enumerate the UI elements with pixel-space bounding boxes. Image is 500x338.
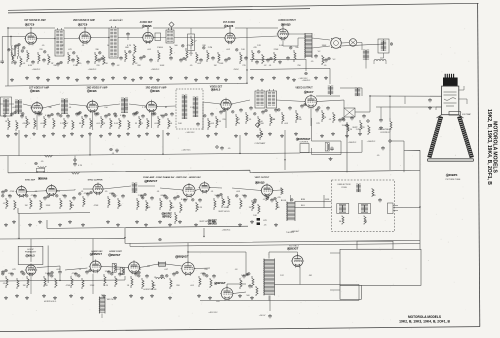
resistor R313 <box>180 202 182 213</box>
ground band A g28 <box>315 76 317 78</box>
tube V18 label <box>214 282 217 285</box>
svg-text:1K: 1K <box>103 123 106 125</box>
svg-text:MOTOROLA MODELS: MOTOROLA MODELS <box>408 315 441 319</box>
resistor R307 <box>108 196 110 208</box>
ground band D g11 <box>151 294 153 296</box>
ground band D g10 <box>141 296 143 298</box>
ground band B g16 <box>157 134 159 136</box>
capacitor C253 <box>331 147 333 149</box>
resistor R109 <box>125 50 127 62</box>
svg-text:82: 82 <box>165 107 168 109</box>
resistor R308 <box>118 198 120 209</box>
svg-text:VIDEO OUTPUT: VIDEO OUTPUT <box>295 88 313 90</box>
node A2 <box>147 27 148 28</box>
wire band B drop x285 <box>284 130 286 170</box>
svg-text:150K: 150K <box>342 125 347 127</box>
ground band A g24 <box>261 78 263 80</box>
transformer L1 input coil <box>11 46 12 57</box>
capacitor C413 <box>203 272 205 274</box>
yoke coil L16 <box>359 204 371 214</box>
wire band C second bus <box>130 243 420 246</box>
ground band B g22 <box>257 134 259 136</box>
svg-text:150: 150 <box>104 107 108 109</box>
ground band B g8 <box>81 134 83 136</box>
resistor R216 <box>158 116 160 128</box>
svg-text:.001: .001 <box>96 123 101 125</box>
junction dots extra <box>7 27 8 28</box>
resistor R409 <box>131 276 133 288</box>
capacitor C211 <box>123 114 125 116</box>
wire flyback bottom <box>268 296 270 301</box>
svg-text:470: 470 <box>277 197 281 199</box>
resistor R118 <box>262 54 264 64</box>
resistor R321 extra <box>228 196 230 208</box>
ground band B g20 <box>235 134 237 136</box>
capacitor C119 <box>287 56 289 58</box>
ground band C g13 <box>179 220 181 222</box>
svg-text:+140VDC: +140VDC <box>302 80 311 82</box>
svg-text:100K: 100K <box>160 65 165 67</box>
svg-text:4.7K: 4.7K <box>78 165 83 167</box>
svg-text:.005: .005 <box>124 107 129 109</box>
ground band D g2 <box>26 296 28 298</box>
capacitor C310 <box>151 196 153 198</box>
svg-text:1.5K: 1.5K <box>73 65 78 67</box>
svg-text:220: 220 <box>96 65 100 67</box>
wire long bus y170 <box>8 150 420 249</box>
resistor R219 <box>216 116 218 128</box>
resistor R101 <box>20 56 22 67</box>
transformer T10 vert output <box>286 202 288 222</box>
label contrast control black <box>296 138 299 141</box>
label hv rect <box>287 247 290 250</box>
svg-text:CONTRAST: CONTRAST <box>255 142 267 145</box>
svg-text:.005: .005 <box>210 123 215 125</box>
capacitor C106 <box>98 58 100 60</box>
resistor R207 <box>72 120 74 130</box>
potentiometer R-contrast <box>260 128 262 140</box>
ground band C g3 <box>39 220 41 222</box>
resistor R412 <box>170 278 172 289</box>
capacitor C417 <box>269 314 271 316</box>
ground band B g2 <box>25 134 27 136</box>
node A1 <box>84 27 85 28</box>
tube V13 label <box>255 181 258 184</box>
border top line inner <box>8 9 310 13</box>
svg-text:1K: 1K <box>273 119 276 121</box>
ground band B g11 <box>109 132 111 134</box>
resistor R301 <box>14 200 16 210</box>
svg-text:FREQ: FREQ <box>165 215 172 218</box>
svg-text:500K: 500K <box>224 207 229 209</box>
svg-text:.002: .002 <box>226 49 231 51</box>
resistor R120 <box>294 50 296 62</box>
ground band D g7 <box>103 294 105 296</box>
tube V1 1st sound IF <box>25 33 36 44</box>
capacitor C108 <box>120 56 122 58</box>
resistor R200 <box>8 118 10 130</box>
resistor R115 <box>218 52 220 63</box>
tube V14 label <box>26 255 29 258</box>
tube V10 label <box>304 91 307 94</box>
resistor R314 <box>196 202 198 212</box>
box contrast <box>300 144 309 153</box>
svg-text:120K: 120K <box>90 285 95 287</box>
capacitor C410 <box>146 274 148 276</box>
wire vol drop <box>190 28 192 56</box>
svg-text:.005: .005 <box>139 123 144 125</box>
svg-text:1X2: 1X2 <box>280 275 284 277</box>
resistor R251 inline <box>71 172 80 174</box>
tube V1 label <box>25 23 28 26</box>
svg-text:.5M: .5M <box>308 275 312 277</box>
resistor R204 <box>44 116 46 128</box>
border bottom line <box>0 327 480 332</box>
transformer T7 2nd IF <box>61 98 64 100</box>
capacitor C318 <box>271 198 273 200</box>
ground band A g16 <box>170 76 172 78</box>
resistor R403 <box>44 276 46 287</box>
wire band D couplings <box>37 264 359 311</box>
resistor R211 <box>110 118 112 129</box>
ground band A g15 <box>157 78 159 80</box>
ground band B g19 <box>215 132 217 134</box>
cluster AGC filter <box>35 162 38 165</box>
svg-text:.05: .05 <box>264 225 268 227</box>
resistor R225 <box>296 110 298 123</box>
resistor R405 <box>71 276 73 288</box>
svg-text:.01: .01 <box>211 191 215 193</box>
capacitor C117 <box>256 60 258 62</box>
wire band B video out to CRT <box>316 88 441 112</box>
capacitor C405 <box>75 272 77 274</box>
capacitor C222 <box>275 108 277 110</box>
cluster right agc <box>110 148 113 151</box>
capacitor C401 <box>11 272 13 274</box>
svg-text:BRN: BRN <box>301 199 306 201</box>
ground band B g4 <box>43 134 45 136</box>
capacitor C409 <box>135 272 137 274</box>
svg-text:6W4GT: 6W4GT <box>216 281 226 285</box>
wire band C couplings <box>27 186 291 202</box>
svg-text:.047: .047 <box>164 269 169 271</box>
svg-text:AUDIO DET: AUDIO DET <box>140 21 153 24</box>
resistor R203 <box>34 118 36 129</box>
svg-text:5.6K: 5.6K <box>114 123 119 125</box>
wire loop rect C <box>340 285 361 299</box>
resistor R227 <box>333 112 335 123</box>
svg-text:.01: .01 <box>82 45 86 47</box>
capacitor C100 <box>15 44 17 46</box>
svg-text:6CB6: 6CB6 <box>153 89 160 93</box>
resistor R116 <box>240 52 242 64</box>
resistor R413 <box>199 276 201 287</box>
svg-text:.02: .02 <box>264 65 268 67</box>
svg-text:10K: 10K <box>253 215 257 217</box>
svg-text:470K: 470K <box>94 205 99 207</box>
capacitor C201 <box>21 114 23 116</box>
capacitor C202 <box>38 112 40 114</box>
resistor R224 <box>282 112 284 124</box>
svg-text:470: 470 <box>253 47 257 49</box>
node A6 <box>246 69 247 70</box>
capacitor C304 <box>64 194 66 196</box>
yoke coil L17 <box>356 183 358 185</box>
svg-text:2.2M: 2.2M <box>208 47 213 49</box>
ground band C g15 <box>213 220 215 222</box>
svg-text:6AL5: 6AL5 <box>28 254 35 258</box>
resistor R206 <box>64 118 66 129</box>
wire x306 drop <box>250 59 306 71</box>
tube V14 horiz phase det <box>26 265 36 275</box>
resistor R315 <box>214 198 216 210</box>
ground band A g17 <box>185 76 187 78</box>
resistor R222 <box>258 116 260 128</box>
ground band B g6 <box>63 134 65 136</box>
svg-text:VC: VC <box>333 59 336 61</box>
capacitor C105 <box>87 60 89 62</box>
ground band A g12 <box>132 78 134 80</box>
capacitor C412 <box>173 272 175 274</box>
svg-text:CONTROL: CONTROL <box>380 132 391 134</box>
transformer T4 audio output <box>304 33 306 58</box>
capacitor C120 <box>315 54 317 56</box>
svg-text:1M: 1M <box>62 195 65 197</box>
svg-text:.05: .05 <box>41 161 45 163</box>
ground band A g2 <box>37 76 39 78</box>
resistor R112 <box>186 48 188 61</box>
coil L5 filter choke <box>363 49 366 51</box>
svg-text:HORIZ HOLD: HORIZ HOLD <box>44 301 57 303</box>
svg-text:56: 56 <box>339 221 342 223</box>
coil L10 peaking <box>255 91 265 108</box>
svg-text:330: 330 <box>298 119 302 121</box>
resistor R111 <box>158 50 160 62</box>
coil L12 sound takeoff <box>328 85 330 87</box>
capacitor C226 <box>327 106 329 108</box>
capacitor C312 <box>174 196 176 198</box>
svg-text:.01: .01 <box>157 191 161 193</box>
svg-text:ION TRAP: ION TRAP <box>462 113 472 116</box>
ground band C g1 <box>13 220 15 222</box>
svg-text:SYNC AMP - SYNC PHASE INV - VE: SYNC AMP - SYNC PHASE INV - VERT OSC - H… <box>143 176 201 179</box>
test point TP2 diamond <box>169 22 174 27</box>
tube V2 2nd sound IF <box>79 32 90 43</box>
wire band D left col <box>31 273 102 318</box>
svg-text:560: 560 <box>174 45 178 47</box>
svg-text:470: 470 <box>276 207 280 209</box>
svg-text:10K: 10K <box>104 63 108 65</box>
capacitor C200 <box>11 112 13 114</box>
resistor R406 <box>82 278 84 289</box>
svg-text:+140 VDC: +140 VDC <box>181 150 191 152</box>
svg-text:2.2M: 2.2M <box>356 129 361 131</box>
wire L20 down <box>380 53 384 58</box>
ground band A g13 <box>140 76 142 78</box>
ground band D g4 <box>54 296 56 298</box>
capacitor C408 <box>119 272 121 274</box>
tube V16 label <box>175 256 178 259</box>
resistor R253 <box>368 125 370 135</box>
capacitor C107 <box>112 62 114 64</box>
svg-text:6.8K: 6.8K <box>28 65 33 67</box>
svg-text:470K: 470K <box>72 273 77 275</box>
svg-text:6AQ5: 6AQ5 <box>258 181 265 185</box>
svg-text:GRN: GRN <box>325 199 330 201</box>
svg-text:DEFLECTION: DEFLECTION <box>338 184 351 186</box>
tube V9 label <box>211 88 214 91</box>
svg-text:10K: 10K <box>178 123 182 125</box>
capacitor C317 <box>254 198 256 200</box>
transformer T3 quad coil <box>166 30 174 43</box>
ground band D g14 <box>209 296 211 298</box>
capacitor C113 <box>200 58 202 60</box>
capacitor C314 <box>199 198 201 200</box>
capacitor C109 <box>140 56 142 58</box>
svg-text:39: 39 <box>135 123 138 125</box>
svg-text:HORIZ DRIVE: HORIZ DRIVE <box>144 289 158 291</box>
svg-text:6BQ6GT: 6BQ6GT <box>177 255 188 259</box>
svg-text:.047: .047 <box>184 199 189 201</box>
wire band A bottom bus <box>5 62 330 86</box>
svg-text:.005: .005 <box>284 123 289 125</box>
svg-text:WIDTH: WIDTH <box>107 299 114 301</box>
capacitor C213 <box>142 114 144 116</box>
resistor R300 <box>6 198 8 209</box>
svg-text:HOLD: HOLD <box>210 222 217 225</box>
svg-text:6BN6: 6BN6 <box>41 176 48 180</box>
picture tube V17 base cap <box>443 78 458 87</box>
svg-text:1K: 1K <box>170 123 173 125</box>
tube V4 1st audio <box>225 33 235 43</box>
ground band B g7 <box>71 132 73 134</box>
svg-text:1K: 1K <box>127 285 130 287</box>
svg-text:+14 KV: +14 KV <box>259 315 266 317</box>
svg-text:.001: .001 <box>190 285 195 287</box>
svg-text:.02: .02 <box>117 65 121 67</box>
ground band B g5 <box>52 132 54 134</box>
svg-text:56: 56 <box>365 221 368 223</box>
ground band B g0 <box>7 134 9 136</box>
resistor R316 <box>240 198 242 209</box>
capacitor C219 <box>240 108 242 110</box>
svg-text:2.2M: 2.2M <box>138 195 143 197</box>
wire speaker feed right <box>341 39 384 46</box>
resistor R103 <box>38 52 40 64</box>
tube V11c sync clipper <box>93 184 103 194</box>
resistor R404 <box>55 278 57 288</box>
resistor R218 <box>208 118 210 130</box>
capacitor C210 <box>114 112 116 114</box>
ground band B g24 <box>281 134 283 136</box>
tube V4 label <box>224 25 227 28</box>
resistor R411 <box>152 280 154 290</box>
ground band C g10 <box>145 223 147 225</box>
ground band C g2 <box>29 223 31 225</box>
capacitor C227 <box>339 118 341 120</box>
svg-text:.03: .03 <box>235 269 239 271</box>
transformer T1 sound IF <box>55 30 64 56</box>
ground band A g25 <box>273 76 275 78</box>
svg-text:+HEIGHT: +HEIGHT <box>291 231 301 233</box>
svg-text:1 MEG: 1 MEG <box>157 47 164 49</box>
resistor R400 <box>6 276 8 288</box>
test point TP1 <box>255 123 259 127</box>
svg-text:8.2K: 8.2K <box>348 129 353 131</box>
capacitor C306 <box>87 192 89 194</box>
ground band B g14 <box>138 134 140 136</box>
ground band A g10 <box>112 76 114 78</box>
transformer T6 1st IF <box>15 99 18 101</box>
svg-text:1M: 1M <box>119 205 122 207</box>
svg-text:8.2K: 8.2K <box>104 285 109 287</box>
labels small black pair <box>257 218 260 221</box>
svg-text:VOL: VOL <box>189 53 194 55</box>
ground band B g26 <box>321 134 323 136</box>
resistor R208 <box>82 116 84 128</box>
wire band A mid couplings <box>37 34 305 39</box>
capacitor C416 <box>249 284 251 286</box>
tube V5 audio output <box>278 29 288 39</box>
ground band C g0 <box>5 223 7 225</box>
svg-text:1M: 1M <box>249 207 252 209</box>
svg-text:YOKE: YOKE <box>341 187 347 189</box>
capacitor C121 <box>325 58 327 60</box>
wire band A plate bus <box>31 25 283 32</box>
svg-text:2ND SOUND IF AMP: 2ND SOUND IF AMP <box>73 19 95 22</box>
svg-text:4.7K: 4.7K <box>236 123 241 125</box>
picture tube V17 bell left <box>429 117 441 158</box>
wire band C routing <box>0 208 420 243</box>
ground band B g23 <box>269 132 271 134</box>
tube V7 label <box>87 90 90 93</box>
svg-text:.01: .01 <box>249 119 253 121</box>
svg-text:SYNC SEP: SYNC SEP <box>25 179 36 181</box>
svg-text:330K: 330K <box>46 205 51 207</box>
tube V16 horiz output <box>182 262 194 274</box>
ground band D g3 <box>43 294 45 296</box>
svg-text:.01: .01 <box>139 269 143 271</box>
svg-text:PICTURE TUBE: PICTURE TUBE <box>446 179 461 181</box>
svg-text:.005: .005 <box>197 63 202 65</box>
wire yoke to flyback <box>295 195 421 208</box>
resistor R220 <box>236 114 238 126</box>
svg-text:.01: .01 <box>8 49 12 51</box>
svg-text:1M: 1M <box>25 205 28 207</box>
svg-text:.01: .01 <box>329 119 333 121</box>
svg-text:.05: .05 <box>105 191 109 193</box>
ground band C g4 <box>59 223 61 225</box>
wire band A input <box>2 37 26 60</box>
svg-text:20BP4: 20BP4 <box>449 173 458 177</box>
svg-text:1M: 1M <box>29 273 32 275</box>
svg-text:VERT HOLD: VERT HOLD <box>218 211 230 213</box>
wire band D plate <box>31 252 298 275</box>
box horiz phase det <box>18 246 43 264</box>
resistor R302 <box>30 198 32 209</box>
capacitor C305 <box>73 196 75 198</box>
resistor R201 <box>16 120 18 131</box>
capacitor C404 <box>59 270 61 272</box>
svg-text:.05: .05 <box>79 63 83 65</box>
ground band A g9 <box>102 78 104 80</box>
resistor R202 <box>26 116 28 128</box>
svg-text:330: 330 <box>48 107 52 109</box>
capacitor C315 <box>217 194 219 196</box>
ground band B g27 <box>332 132 334 134</box>
svg-text:1ST AUDIO: 1ST AUDIO <box>223 21 235 24</box>
svg-text:180: 180 <box>295 47 299 49</box>
